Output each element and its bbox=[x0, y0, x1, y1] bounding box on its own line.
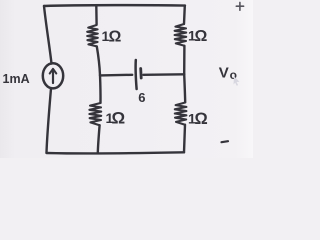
svg-text:6: 6 bbox=[138, 90, 145, 105]
svg-text:Ω: Ω bbox=[109, 29, 122, 46]
svg-text:Ω: Ω bbox=[195, 28, 208, 45]
svg-text:Ω: Ω bbox=[195, 110, 208, 128]
svg-text:Ω: Ω bbox=[112, 109, 126, 128]
svg-text:1mA: 1mA bbox=[3, 72, 30, 86]
svg-text:V: V bbox=[219, 65, 229, 82]
